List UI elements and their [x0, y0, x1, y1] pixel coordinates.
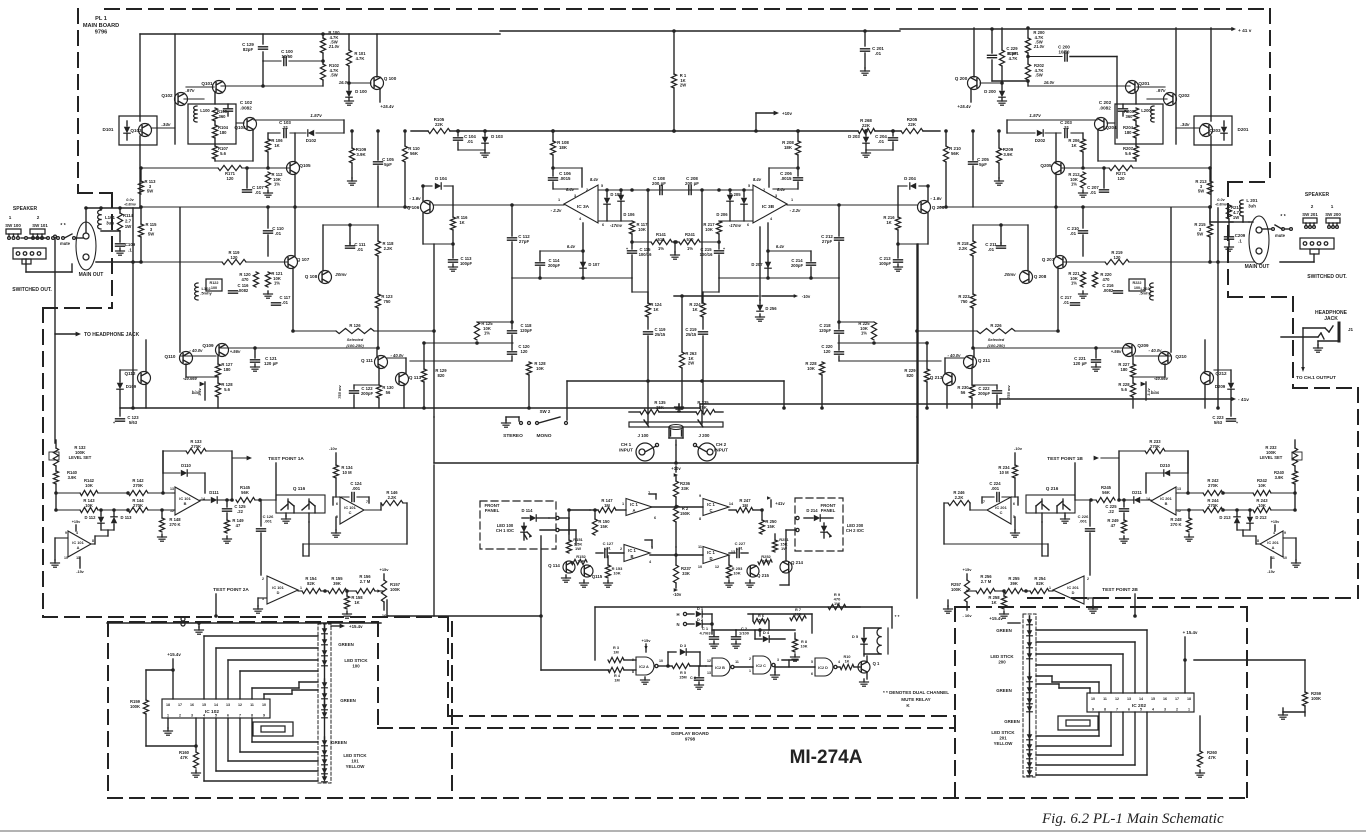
- label R159: [130, 699, 141, 709]
- diode D112: [98, 508, 104, 530]
- label +15v ic101a: [1271, 520, 1280, 531]
- resistor R200: [1025, 26, 1030, 53]
- svg-text:3: 3: [1164, 708, 1166, 712]
- wire v175: [174, 34, 176, 144]
- svg-text:- 40.0v: - 40.0v: [189, 348, 203, 353]
- resistor R148: [159, 508, 164, 532]
- svg-text:A: A: [77, 545, 80, 550]
- svg-text:20mv: 20mv: [1003, 272, 1016, 277]
- svg-text:+15v: +15v: [72, 520, 81, 524]
- label C206: [780, 171, 792, 181]
- svg-text:18K: 18K: [784, 145, 793, 150]
- capacitor C223: [1227, 419, 1239, 425]
- svg-text:3.9K: 3.9K: [1003, 152, 1013, 157]
- resistor R246: [948, 500, 970, 505]
- wire led nest mid rects: [253, 722, 293, 736]
- diode D209: [1228, 370, 1234, 416]
- label CH2 INPUT: [714, 442, 728, 452]
- label R142a: [1257, 478, 1268, 488]
- resistor R210: [943, 129, 948, 209]
- svg-text:CH 2: CH 2: [716, 442, 727, 447]
- transistor Q103 box: [119, 116, 157, 145]
- label 6.4v pin2: [566, 187, 575, 192]
- label D200: [984, 89, 996, 94]
- capacitor C209: [1225, 219, 1234, 244]
- diode D205: [741, 188, 747, 221]
- svg-text:14: 14: [1139, 697, 1143, 701]
- wire left col: [131, 208, 135, 410]
- wire fb top: [161, 451, 165, 495]
- wire pot rail: [629, 404, 723, 412]
- svg-text:.01: .01: [1070, 231, 1077, 236]
- svg-text:22K: 22K: [435, 122, 444, 127]
- label R135: [654, 400, 666, 410]
- transistor Q114: [563, 561, 575, 573]
- display board bottom dashed: [108, 797, 1250, 799]
- label .34v: [162, 122, 171, 127]
- capacitor C225: [1120, 498, 1129, 511]
- svg-text:.001: .001: [991, 486, 1000, 491]
- svg-text:Q202: Q202: [1178, 93, 1190, 98]
- svg-text:.01: .01: [1063, 300, 1069, 305]
- ground Q216: [1061, 513, 1070, 523]
- label L100: [200, 108, 210, 113]
- resistor R113: [138, 168, 143, 194]
- wire IC3B pin7 stub: [759, 296, 761, 300]
- svg-text:1/100: 1/100: [739, 631, 750, 636]
- resistor R125: [474, 322, 479, 340]
- svg-text:5: 5: [811, 660, 813, 664]
- svg-text:IC 1: IC 1: [628, 548, 636, 553]
- label R234: [998, 465, 1010, 475]
- op-amp IC1 D: [703, 547, 729, 564]
- label R245: [1101, 485, 1112, 495]
- ground IC2A: [641, 677, 650, 684]
- label R129: [435, 368, 447, 378]
- wire R201 out: [980, 66, 1004, 85]
- resistor R103: [212, 108, 217, 121]
- svg-text:D 256: D 256: [765, 306, 777, 311]
- wire led nest rt1: [1036, 630, 1147, 693]
- resistor R207: [1133, 138, 1138, 159]
- label R201: [1007, 51, 1019, 61]
- resistor R244: [1203, 507, 1223, 512]
- label R127: [221, 362, 233, 372]
- svg-text:+15.4v: +15.4v: [957, 104, 971, 109]
- label C122: [361, 386, 374, 396]
- svg-text:IC2 A: IC2 A: [639, 665, 649, 669]
- svg-text:5/63: 5/63: [1214, 420, 1223, 425]
- main board dashed border top: [105, 8, 1270, 10]
- label -15v ic101a: [76, 557, 84, 574]
- wire led nest rmid1: [1036, 676, 1099, 693]
- label R206: [1068, 138, 1080, 148]
- label SPEAKER left: [13, 206, 38, 212]
- label +41v: [1231, 27, 1251, 34]
- resistor R171: [218, 165, 242, 170]
- label R103: [217, 109, 228, 119]
- svg-text:+15v: +15v: [1271, 520, 1280, 524]
- wire L101 R114 join: [101, 231, 120, 242]
- label R140: [67, 470, 78, 480]
- label L200: [1141, 108, 1151, 113]
- coil L101: [98, 206, 103, 229]
- svg-text:Q212: Q212: [1215, 371, 1227, 376]
- label R116: [457, 215, 469, 225]
- label selected: [987, 337, 1005, 348]
- diode D113: [111, 508, 117, 530]
- ground IC101A: [51, 538, 69, 567]
- capacitor C106: [549, 166, 579, 189]
- wire Q212 links: [1205, 340, 1231, 408]
- label C114: [548, 258, 561, 268]
- svg-text:-40.66v: -40.66v: [1154, 376, 1169, 381]
- capacitor C116: [229, 291, 238, 293]
- svg-text:5/63: 5/63: [129, 420, 138, 425]
- fets Q116: [281, 499, 315, 513]
- label C127: [603, 541, 614, 551]
- resistor R122 box: [206, 279, 222, 291]
- label R4: [614, 674, 621, 682]
- label TO HEADPHONE JACK: [84, 332, 140, 338]
- right display box top dashed: [955, 606, 1247, 608]
- svg-text:(100-250): (100-250): [987, 343, 1005, 348]
- switched out box right: [1300, 238, 1334, 254]
- capacitor C206: [773, 166, 803, 189]
- resistor R133: [163, 448, 232, 453]
- svg-text:Q110: Q110: [165, 354, 176, 359]
- svg-text:18: 18: [1187, 697, 1191, 701]
- led stick 100 diodes: [322, 625, 328, 718]
- wire C104 D103: [458, 149, 485, 151]
- label D111: [209, 490, 219, 495]
- label D205: [729, 192, 741, 197]
- wire R146 loop: [303, 503, 407, 556]
- svg-text:1: 1: [9, 215, 12, 220]
- svg-text:JACK: JACK: [1324, 316, 1338, 322]
- svg-text:11: 11: [1271, 556, 1275, 560]
- resistor R226: [977, 328, 1015, 333]
- wire jack to rail: [84, 206, 88, 233]
- svg-text:IC 3A: IC 3A: [577, 204, 590, 210]
- input connector: [669, 425, 683, 439]
- label mute right: [1275, 233, 1286, 238]
- label R240: [1274, 470, 1285, 480]
- label C213: [879, 256, 892, 266]
- wire R208 loop: [769, 155, 798, 187]
- ground IC101C: [332, 517, 341, 537]
- svg-text:15K: 15K: [600, 524, 608, 529]
- svg-text:Q102: Q102: [161, 93, 173, 98]
- ground R253: [725, 580, 734, 587]
- display board left dashed: [107, 622, 109, 798]
- resistor R160: [193, 746, 198, 768]
- transistor Q107: [285, 256, 298, 269]
- label R257: [951, 582, 962, 592]
- capacitor C100: [284, 57, 286, 66]
- svg-text:750: 750: [384, 299, 392, 304]
- svg-text:L100: L100: [200, 108, 210, 113]
- svg-text:120pF: 120pF: [520, 328, 533, 333]
- label R229: [904, 368, 916, 378]
- label -10v r134: [1014, 446, 1023, 451]
- wire Q103 base: [151, 127, 175, 129]
- pin 2: [586, 188, 588, 192]
- label R156: [359, 574, 371, 584]
- pins IC2C: [749, 657, 779, 673]
- wire jack drop: [674, 440, 678, 465]
- svg-text:TEST POINT 1A: TEST POINT 1A: [268, 456, 304, 462]
- label Q216: [1046, 486, 1059, 491]
- svg-text:8: 8: [1257, 539, 1259, 543]
- svg-text:Q101: Q101: [201, 81, 213, 86]
- label C110: [272, 226, 284, 236]
- capacitor C202: [1119, 104, 1128, 116]
- svg-text:+.56v: +.56v: [1111, 349, 1122, 354]
- potentiometer R257: [964, 574, 976, 610]
- resistor R209: [996, 129, 1001, 178]
- resistor R151: [566, 540, 571, 553]
- svg-text:Q210: Q210: [1175, 354, 1187, 359]
- label MONO: [537, 433, 552, 439]
- caption Fig 6.2: [1041, 811, 1224, 827]
- main board dashed jog: [78, 192, 112, 194]
- pin 2: [763, 188, 765, 192]
- svg-text:(100-250): (100-250): [346, 343, 364, 348]
- wire Q204 out: [1007, 120, 1097, 133]
- wire rail168: [139, 166, 270, 170]
- svg-text:17: 17: [178, 703, 182, 707]
- svg-text:2: 2: [1311, 204, 1314, 209]
- wire logic mid: [736, 614, 812, 636]
- wire riser top: [1074, 463, 1076, 500]
- label D104: [435, 176, 447, 181]
- wire Q107 emitter: [292, 268, 294, 331]
- label 1 right: [1331, 204, 1334, 209]
- capacitor C109: [116, 244, 125, 246]
- svg-text:.97v: .97v: [1157, 88, 1166, 93]
- resistor R100: [320, 32, 325, 53]
- svg-text:IC2 B: IC2 B: [715, 666, 725, 670]
- svg-text:100K: 100K: [130, 704, 140, 709]
- wiper arrows: [644, 420, 703, 427]
- svg-text:1%: 1%: [687, 246, 693, 251]
- svg-text:Q105: Q105: [299, 163, 311, 168]
- svg-text:100: 100: [352, 663, 360, 668]
- diode D201: [1221, 121, 1227, 140]
- svg-text:D 3: D 3: [680, 643, 687, 648]
- svg-text:180: 180: [1121, 367, 1129, 372]
- wire IC101A out: [91, 536, 95, 544]
- resistor R7: [790, 615, 806, 620]
- wire led nest rmid2: [1036, 684, 1090, 693]
- label D1: [697, 606, 704, 611]
- wire C203 row: [1007, 132, 1083, 134]
- wire logic top loop: [539, 536, 892, 670]
- svg-text:5W: 5W: [147, 189, 153, 194]
- label R152: [576, 554, 586, 564]
- coil L201: [1240, 200, 1243, 222]
- op-amp IC101C: [340, 497, 364, 524]
- transistor Q111: [375, 356, 388, 369]
- label Q210: [1175, 354, 1187, 359]
- label +15v ic101a: [72, 520, 81, 531]
- svg-text:270K: 270K: [133, 503, 143, 508]
- svg-text:10/50: 10/50: [282, 54, 294, 59]
- svg-text:5: 5: [1140, 708, 1142, 712]
- svg-text:1: 1: [622, 502, 624, 506]
- svg-text:D102: D102: [306, 138, 317, 143]
- svg-text:10K: 10K: [733, 571, 740, 576]
- transistor Q204: [1095, 118, 1108, 131]
- capacitor C102: [224, 104, 233, 116]
- resistor R117: [629, 221, 634, 234]
- svg-text:SW 200: SW 200: [1325, 212, 1341, 217]
- label Q114: [548, 563, 560, 568]
- svg-text:100: 100: [1134, 286, 1140, 290]
- transistor Q200: [968, 77, 981, 90]
- label R155: [331, 576, 343, 586]
- svg-text:+15.4v: +15.4v: [380, 104, 394, 109]
- svg-text:13: 13: [226, 703, 230, 707]
- label 8.4v: [753, 177, 762, 182]
- display board top dashed center: [378, 727, 955, 729]
- svg-text:39K: 39K: [1010, 581, 1018, 586]
- label R217: [703, 222, 715, 232]
- svg-text:2: 2: [262, 577, 264, 581]
- ground IC101D: [254, 598, 268, 613]
- label SW 200: [1325, 212, 1341, 217]
- wire switched right: [1280, 254, 1314, 262]
- wire C204 D203: [866, 149, 893, 151]
- label R171: [225, 171, 236, 181]
- ground D100: [345, 98, 354, 105]
- label asterisk relay: [895, 614, 900, 619]
- svg-text:CH 1 IOC: CH 1 IOC: [496, 528, 514, 533]
- svg-text:13: 13: [170, 487, 174, 491]
- wire rail343: [424, 341, 513, 345]
- gate IC2 C: [753, 656, 775, 674]
- label D110: [181, 463, 191, 468]
- label -10v r134: [329, 446, 338, 451]
- svg-text:D 103: D 103: [491, 134, 503, 139]
- wire Q205 collector: [1055, 133, 1057, 162]
- label 20mv: [1003, 272, 1016, 277]
- wire Q208 cell: [973, 223, 1028, 271]
- label D212: [1255, 515, 1267, 520]
- op-amp IC101C: [987, 497, 1011, 524]
- label -15v R257: [962, 613, 972, 618]
- display board top-left dashed: [108, 621, 378, 623]
- label Q100: [384, 76, 397, 81]
- label SW 2: [540, 409, 551, 414]
- svg-text:Q115: Q115: [592, 574, 603, 579]
- label TEST POINT 1A: [232, 456, 304, 462]
- diode D1: [696, 611, 712, 617]
- wire v175: [1175, 28, 1177, 144]
- capacitor C117: [272, 303, 281, 305]
- wire R145 out: [255, 498, 276, 502]
- wire R225 top: [837, 320, 874, 324]
- label R223: [958, 294, 970, 304]
- svg-text:.01: .01: [467, 139, 474, 144]
- svg-text:2W: 2W: [680, 83, 686, 88]
- svg-text:C209: C209: [1235, 233, 1246, 238]
- label -10v: [673, 592, 682, 597]
- svg-text:.1: .1: [128, 247, 132, 252]
- diode D110: [163, 451, 205, 493]
- resistor R118: [375, 241, 380, 256]
- svg-text:C: C: [709, 508, 712, 513]
- svg-text:Q103: Q103: [130, 128, 142, 133]
- svg-text:5.6: 5.6: [1125, 151, 1131, 156]
- svg-text:200pF: 200pF: [978, 391, 991, 396]
- svg-text:IC 1: IC 1: [707, 550, 715, 555]
- svg-text:+ 15.4v: + 15.4v: [1183, 630, 1198, 635]
- svg-text:56K: 56K: [410, 151, 419, 156]
- wire riser x434: [433, 244, 435, 417]
- label LED 200: [846, 523, 864, 533]
- op-amp IC101B: [1260, 531, 1283, 557]
- svg-text:Q209: Q209: [1137, 343, 1149, 348]
- svg-text:200pF: 200pF: [548, 263, 561, 268]
- svg-text:4.7K: 4.7K: [356, 56, 365, 61]
- capacitor C227: [729, 549, 748, 558]
- capacitor C118: [508, 278, 517, 333]
- label C207: [1087, 185, 1099, 195]
- label LED 100: [496, 523, 514, 533]
- capacitor C213: [894, 242, 903, 262]
- resistor R145: [236, 497, 255, 502]
- wire input gnd loop: [434, 244, 918, 463]
- svg-text:.34v: .34v: [162, 122, 171, 127]
- led column box right: [1023, 614, 1036, 777]
- svg-text:PANEL: PANEL: [485, 508, 500, 513]
- svg-text:R 226: R 226: [990, 323, 1002, 328]
- resistor R256: [976, 588, 995, 593]
- label Q212: [1215, 371, 1227, 376]
- svg-text:IC 1: IC 1: [707, 502, 715, 507]
- svg-text:CH 2 IOC: CH 2 IOC: [846, 528, 864, 533]
- svg-text:1%: 1%: [484, 331, 490, 336]
- wire rail86: [221, 80, 323, 86]
- pins IC101B: [1146, 487, 1181, 513]
- svg-text:14: 14: [729, 502, 734, 506]
- transistor Q1: [854, 661, 870, 673]
- ground R209: [995, 178, 1004, 185]
- resistor R130: [376, 367, 381, 408]
- wire C226 col: [1086, 500, 1095, 575]
- pins IC1D: [698, 545, 735, 569]
- label IC101B: [1160, 496, 1172, 506]
- svg-text:MONO: MONO: [537, 433, 552, 439]
- diode D114: [522, 515, 549, 521]
- svg-text:Q 216: Q 216: [1046, 486, 1059, 491]
- label R100: [328, 30, 340, 45]
- resistor R237: [673, 547, 678, 592]
- label Q113: [409, 375, 422, 380]
- transistor Q112: [138, 372, 151, 385]
- svg-text:Q 106: Q 106: [407, 205, 420, 210]
- svg-text:3.9K: 3.9K: [1275, 475, 1284, 480]
- svg-text:- 2.2v: - 2.2v: [551, 208, 562, 213]
- wire C229 col: [990, 27, 1030, 83]
- label C123: [127, 415, 139, 425]
- wire top bus: [140, 29, 1232, 34]
- svg-text:B: B: [630, 554, 633, 559]
- transistor Q201: [1126, 81, 1139, 94]
- svg-text:4: 4: [203, 714, 205, 718]
